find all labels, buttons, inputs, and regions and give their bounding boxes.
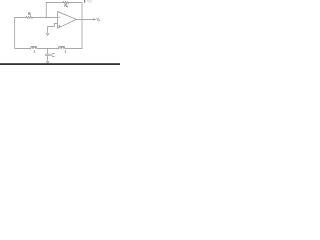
wire non-inverting input to ground: [48, 23, 58, 33]
ground (arrow below op-amp + input): [46, 33, 49, 35]
wire R1 to op-amp inverting input: [33, 16, 58, 18]
label R2: [65, 4, 68, 7]
op-amp minus sign: [59, 16, 60, 18]
resistor R1: [26, 16, 33, 18]
label L (inductor L2): [65, 50, 66, 52]
wire feedback top rail left of R2: [46, 2, 63, 4]
wire bottom rail right: [65, 48, 82, 50]
label Vo: [97, 18, 100, 21]
output terminal arrowhead: [94, 19, 96, 20]
wire input node to R1: [15, 16, 26, 18]
wire feedback top rail right of R2: [69, 2, 82, 4]
faint smudge top right: [87, 0, 92, 3]
wire op-amp output: [77, 18, 96, 20]
op-amp plus sign: [59, 25, 61, 27]
bottom horizontal rule: [0, 63, 120, 65]
op-amp U1: [58, 12, 77, 29]
resistor R2: [63, 1, 69, 3]
label C (capacitor): [52, 54, 55, 57]
capacitor C: [45, 54, 50, 56]
inductor L2: [59, 46, 65, 48]
inductor L1: [31, 46, 37, 48]
label L (inductor L1): [34, 50, 35, 52]
wire capacitor stem from bottom rail: [47, 49, 49, 55]
label R1: [28, 12, 31, 15]
wire left branch: top-left corner down to bottom rail: [15, 17, 31, 48]
ground (arrow below capacitor): [46, 61, 49, 63]
wire below capacitor: [47, 56, 49, 62]
wire bottom rail middle: [37, 48, 59, 50]
wire right vertical (feedback to output node to bottom rail): [81, 3, 83, 49]
cropped text fragment top edge: [83, 0, 86, 3]
wire feedback left vertical: [45, 3, 47, 18]
